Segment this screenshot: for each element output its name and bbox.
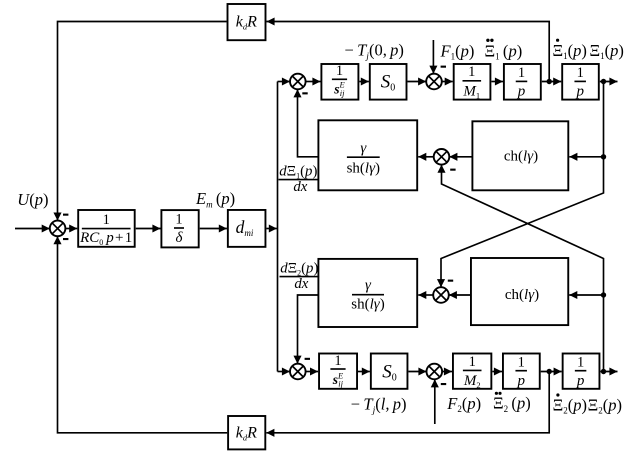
svg-text:1: 1 <box>468 64 475 80</box>
svg-text:sEij: sEij <box>332 370 344 388</box>
svg-text:sh(lγ): sh(lγ) <box>347 160 380 176</box>
svg-text:1: 1 <box>577 65 584 81</box>
svg-text:ch(lγ): ch(lγ) <box>504 148 538 164</box>
svg-text:kd​R: kd​R <box>236 13 257 31</box>
svg-text:dx: dx <box>294 276 308 292</box>
svg-text:Ξ2​ (p): Ξ2​ (p) <box>493 394 531 414</box>
svg-text:− Tj​(0, p): − Tj​(0, p) <box>345 41 404 62</box>
svg-text:RC0​ p + 1: RC0​ p + 1 <box>79 230 132 247</box>
svg-text:1: 1 <box>577 355 584 371</box>
svg-text:U(p): U(p) <box>17 190 48 209</box>
svg-text:δ: δ <box>176 230 184 246</box>
svg-text:Ξ1​ (p): Ξ1​ (p) <box>485 41 523 61</box>
svg-text:− Tj​(l, p): − Tj​(l, p) <box>351 395 407 416</box>
svg-text:sEij: sEij <box>333 80 345 98</box>
svg-text:Ξ2​(p): Ξ2​(p) <box>553 395 587 415</box>
svg-text:1: 1 <box>469 354 476 370</box>
svg-text:1: 1 <box>336 63 343 79</box>
svg-text:F1​(p): F1​(p) <box>440 41 475 61</box>
svg-text:F2​(p): F2​(p) <box>446 394 481 414</box>
svg-text:dx: dx <box>293 179 307 195</box>
svg-text:Ξ1​(p): Ξ1​(p) <box>553 41 587 61</box>
svg-text:1: 1 <box>518 65 525 81</box>
svg-text:1: 1 <box>334 353 341 369</box>
svg-text:p: p <box>516 373 525 389</box>
svg-text:ch(lγ): ch(lγ) <box>505 287 539 303</box>
svg-text:p: p <box>517 84 526 100</box>
svg-text:Ξ1​(p): Ξ1​(p) <box>590 41 624 61</box>
svg-text:kd​R: kd​R <box>236 424 257 442</box>
svg-text:1: 1 <box>103 212 110 228</box>
svg-text:p: p <box>575 84 584 100</box>
svg-text:1: 1 <box>175 211 182 227</box>
svg-text:Ξ2​(p): Ξ2​(p) <box>588 395 622 415</box>
svg-text:Em​ (p): Em​ (p) <box>195 189 235 209</box>
svg-text:p: p <box>576 373 585 389</box>
svg-text:sh(lγ): sh(lγ) <box>351 297 384 313</box>
svg-text:1: 1 <box>518 355 525 371</box>
